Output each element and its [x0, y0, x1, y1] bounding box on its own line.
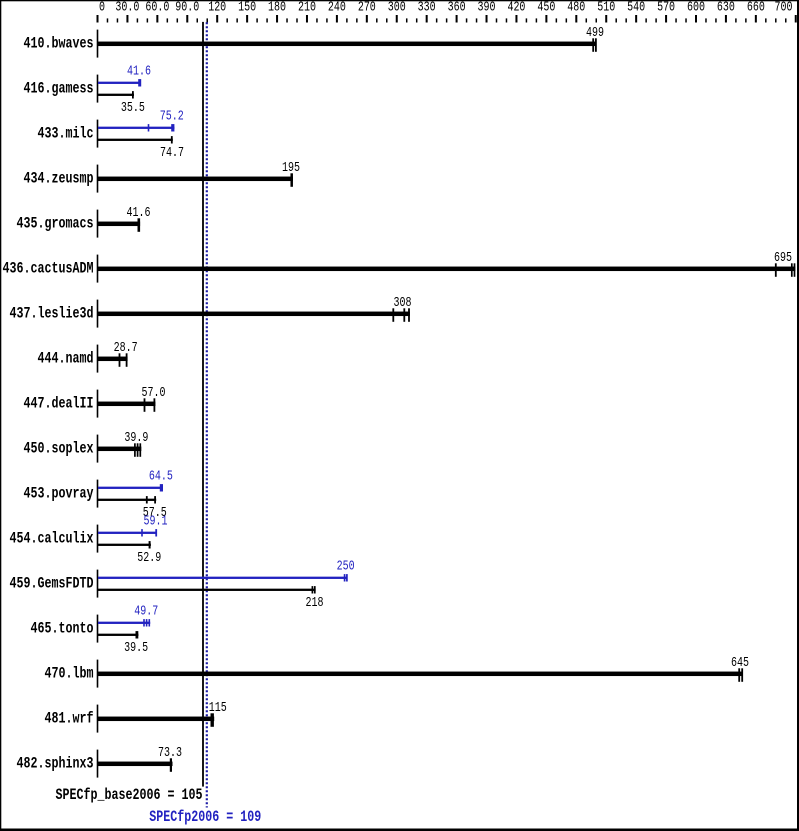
- svg-text:180: 180: [268, 0, 286, 16]
- svg-text:300: 300: [388, 0, 406, 16]
- svg-text:570: 570: [657, 0, 675, 16]
- svg-text:360: 360: [448, 0, 466, 16]
- svg-text:470.lbm: 470.lbm: [45, 664, 94, 682]
- svg-text:150: 150: [238, 0, 256, 16]
- svg-text:695: 695: [774, 250, 792, 266]
- row 481.wrf: [45, 700, 227, 733]
- svg-text:390: 390: [478, 0, 496, 16]
- svg-text:450.soplex: 450.soplex: [24, 439, 94, 457]
- row 416.gamess: [24, 64, 152, 116]
- row 454.calculix: [10, 514, 168, 566]
- svg-text:444.namd: 444.namd: [38, 349, 94, 367]
- svg-text:195: 195: [282, 160, 300, 176]
- svg-text:SPECfp2006 = 109: SPECfp2006 = 109: [149, 808, 261, 826]
- svg-text:450: 450: [537, 0, 555, 16]
- svg-text:700: 700: [775, 0, 793, 16]
- row 433.milc: [38, 109, 185, 161]
- SPECfp_base2006 reference line (105): [202, 22, 204, 787]
- svg-text:630: 630: [717, 0, 735, 16]
- svg-text:41.6: 41.6: [127, 205, 151, 221]
- row 434.zeusmp: [24, 160, 301, 193]
- row 437.leslie3d: [10, 295, 412, 328]
- row 435.gromacs: [17, 205, 151, 238]
- svg-text:57.0: 57.0: [142, 385, 166, 401]
- row 470.lbm: [45, 655, 750, 688]
- svg-text:434.zeusmp: 434.zeusmp: [24, 169, 94, 187]
- svg-text:74.7: 74.7: [160, 145, 184, 161]
- svg-text:270: 270: [358, 0, 376, 16]
- row 450.soplex: [24, 430, 149, 463]
- row 436.cactusADM: [3, 250, 796, 283]
- svg-text:330: 330: [418, 0, 436, 16]
- row 444.namd: [38, 340, 138, 373]
- svg-text:645: 645: [731, 655, 749, 671]
- svg-text:465.tonto: 465.tonto: [31, 619, 94, 637]
- row 482.sphinx3: [17, 745, 183, 778]
- svg-text:75.2: 75.2: [160, 109, 184, 125]
- svg-text:210: 210: [298, 0, 316, 16]
- svg-text:510: 510: [597, 0, 615, 16]
- svg-text:49.7: 49.7: [134, 604, 158, 620]
- svg-text:SPECfp_base2006 = 105: SPECfp_base2006 = 105: [56, 786, 203, 804]
- svg-text:28.7: 28.7: [114, 340, 138, 356]
- svg-text:39.9: 39.9: [124, 430, 148, 446]
- svg-text:437.leslie3d: 437.leslie3d: [10, 304, 94, 322]
- svg-text:410.bwaves: 410.bwaves: [24, 34, 94, 52]
- svg-text:60.0: 60.0: [145, 0, 169, 16]
- svg-text:30.0: 30.0: [115, 0, 139, 16]
- SPECfp2006 reference line (109, dotted): [206, 22, 208, 807]
- svg-text:90.0: 90.0: [175, 0, 199, 16]
- svg-text:218: 218: [306, 595, 324, 611]
- svg-text:435.gromacs: 435.gromacs: [17, 214, 94, 232]
- svg-text:52.9: 52.9: [137, 550, 161, 566]
- svg-text:660: 660: [747, 0, 765, 16]
- svg-text:308: 308: [394, 295, 412, 311]
- svg-text:35.5: 35.5: [121, 100, 145, 116]
- svg-text:433.milc: 433.milc: [38, 124, 94, 142]
- row 447.dealII: [24, 385, 166, 418]
- row 453.povray: [24, 469, 173, 521]
- row 410.bwaves: [24, 25, 605, 58]
- svg-text:454.calculix: 454.calculix: [10, 529, 94, 547]
- svg-text:480: 480: [567, 0, 585, 16]
- svg-text:436.cactusADM: 436.cactusADM: [3, 259, 94, 277]
- frame: [0, 0, 799, 1]
- svg-text:447.dealII: 447.dealII: [24, 394, 94, 412]
- svg-text:540: 540: [627, 0, 645, 16]
- svg-text:73.3: 73.3: [158, 745, 182, 761]
- svg-text:600: 600: [687, 0, 705, 16]
- svg-text:120: 120: [208, 0, 226, 16]
- svg-text:240: 240: [328, 0, 346, 16]
- svg-text:420: 420: [507, 0, 525, 16]
- row 459.GemsFDTD: [10, 559, 355, 611]
- svg-text:0: 0: [99, 0, 105, 16]
- svg-text:115: 115: [209, 700, 227, 716]
- svg-text:250: 250: [337, 559, 355, 575]
- x axis: [97, 0, 797, 23]
- svg-text:416.gamess: 416.gamess: [24, 79, 94, 97]
- row 465.tonto: [31, 604, 159, 656]
- svg-text:64.5: 64.5: [149, 469, 173, 485]
- svg-text:459.GemsFDTD: 459.GemsFDTD: [10, 574, 94, 592]
- svg-text:59.1: 59.1: [144, 514, 168, 530]
- svg-text:39.5: 39.5: [124, 640, 148, 656]
- svg-text:482.sphinx3: 482.sphinx3: [17, 754, 94, 772]
- svg-text:481.wrf: 481.wrf: [45, 709, 94, 727]
- svg-text:453.povray: 453.povray: [24, 484, 94, 502]
- svg-text:41.6: 41.6: [127, 64, 151, 80]
- svg-text:499: 499: [586, 25, 604, 41]
